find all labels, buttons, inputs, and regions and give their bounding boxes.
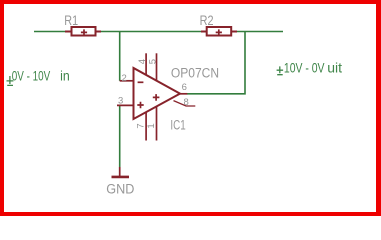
input plus-minus mark xyxy=(7,76,14,85)
svg-text:5: 5 xyxy=(147,59,158,64)
wire pin 3 down to ground xyxy=(119,105,121,167)
svg-text:10V - 0V: 10V - 0V xyxy=(284,59,325,75)
svg-text:8: 8 xyxy=(184,97,189,108)
svg-text:3: 3 xyxy=(118,95,123,106)
op-amp inverting input marker (minus) xyxy=(138,81,144,83)
svg-text:7: 7 xyxy=(135,123,146,128)
output plus-minus mark xyxy=(277,66,284,74)
svg-text:R1: R1 xyxy=(64,13,78,28)
pin 3 (non-inverting input) xyxy=(117,104,134,106)
op-amp center plus marker xyxy=(153,94,160,101)
wire node A down to pin 2 xyxy=(119,32,121,81)
pin 5 (power) xyxy=(156,53,158,81)
wire output node down to pin 6 xyxy=(187,32,245,94)
svg-text:R2: R2 xyxy=(200,13,214,28)
svg-text:1: 1 xyxy=(146,123,157,128)
svg-text:in: in xyxy=(60,67,70,83)
resistor R1 xyxy=(65,27,101,36)
svg-text:IC1: IC1 xyxy=(170,117,185,132)
pin 7 number (rotated) xyxy=(135,123,146,128)
resistor R2 xyxy=(201,27,237,36)
pin 2 (inverting input) xyxy=(120,80,134,82)
op-amp IC1 triangle xyxy=(134,68,181,119)
ground symbol xyxy=(112,167,130,177)
wire between R1 and R2 (node A net) xyxy=(101,31,201,33)
pin 1 xyxy=(156,106,158,140)
pin 7 xyxy=(145,112,147,141)
wire R2 right to output node xyxy=(237,31,283,33)
op-amp non-inverting input marker (plus) xyxy=(137,102,143,108)
svg-text:uit: uit xyxy=(327,59,342,75)
pin 1 number (rotated) xyxy=(146,123,157,128)
pin 4 (power) xyxy=(145,53,147,75)
wire input net left xyxy=(34,31,66,33)
svg-text:0V - 10V: 0V - 10V xyxy=(12,67,51,83)
svg-text:2: 2 xyxy=(122,73,127,84)
svg-text:GND: GND xyxy=(106,181,134,196)
svg-text:OP07CN: OP07CN xyxy=(171,66,219,81)
pin 4 number (rotated) xyxy=(137,59,148,64)
pin 8 (trim) xyxy=(174,101,196,106)
svg-text:6: 6 xyxy=(182,82,187,93)
pin 5 number (rotated) xyxy=(147,59,158,64)
pin 6 (output) xyxy=(180,93,187,95)
